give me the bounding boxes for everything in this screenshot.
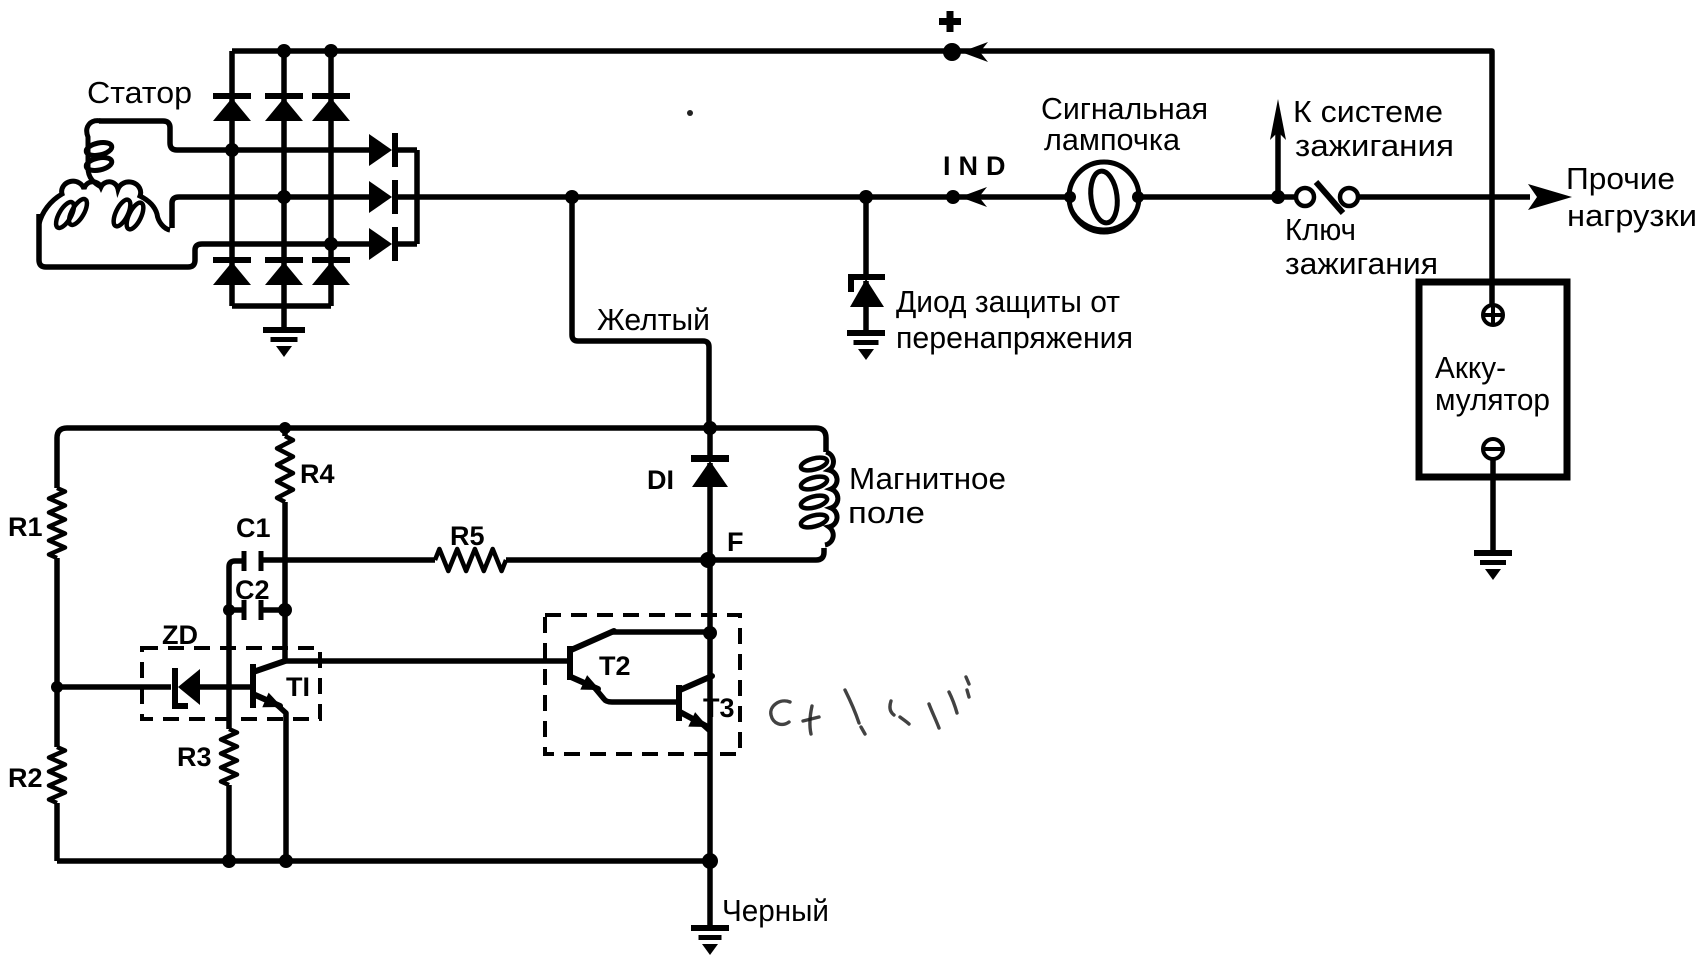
svg-text:Акку-: Акку- [1435,350,1506,385]
svg-text:зажигания: зажигания [1295,128,1454,163]
svg-text:R2: R2 [8,763,43,793]
svg-text:R4: R4 [300,459,335,489]
svg-text:поле: поле [848,495,925,530]
svg-text:К системе: К системе [1293,94,1443,129]
svg-text:R1: R1 [8,512,43,542]
svg-text:Черный: Черный [722,893,829,928]
svg-text:мулятор: мулятор [1435,382,1550,417]
svg-text:нагрузки: нагрузки [1567,198,1697,233]
svg-text:T3: T3 [703,693,735,723]
svg-text:ZD: ZD [162,620,198,650]
svg-text:зажигания: зажигания [1285,246,1438,281]
svg-text:Ключ: Ключ [1285,212,1356,247]
svg-text:IND: IND [943,151,1014,181]
svg-text:C2: C2 [235,575,270,605]
svg-text:F: F [727,527,744,557]
svg-text:Прочие: Прочие [1566,161,1675,196]
svg-text:Сигнальная: Сигнальная [1041,91,1208,126]
svg-text:R3: R3 [177,742,212,772]
svg-text:DI: DI [647,465,674,495]
svg-text:Статор: Статор [87,75,192,110]
svg-text:перенапряжения: перенапряжения [896,320,1133,355]
svg-text:R5: R5 [450,521,485,551]
svg-text:лампочка: лампочка [1044,122,1181,157]
svg-text:TI: TI [286,672,310,702]
svg-text:T2: T2 [599,651,631,681]
svg-text:Желтый: Желтый [597,302,710,337]
svg-text:Диод защиты от: Диод защиты от [896,284,1120,319]
svg-text:Магнитное: Магнитное [849,461,1006,496]
svg-text:C1: C1 [236,513,271,543]
